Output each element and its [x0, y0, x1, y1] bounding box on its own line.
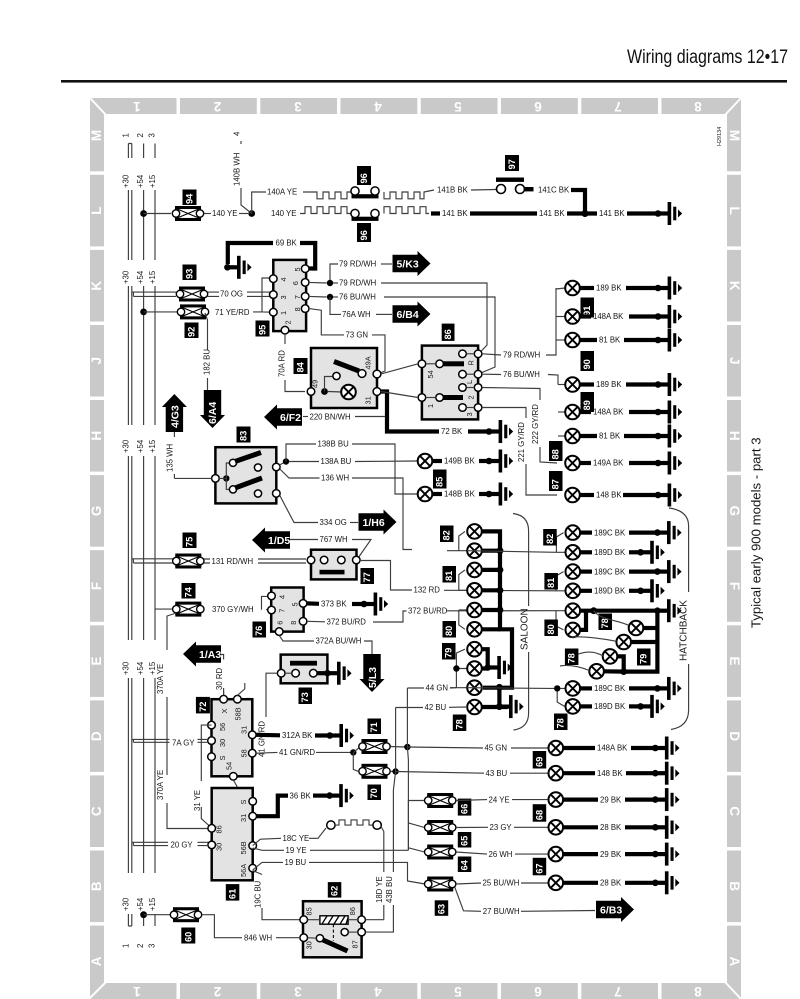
- svg-text:58B: 58B: [234, 707, 243, 720]
- svg-text:73: 73: [300, 692, 310, 702]
- svg-text:S: S: [218, 756, 227, 761]
- wire 373 BK thick to earth: [307, 601, 319, 606]
- svg-text:140 YE: 140 YE: [271, 209, 296, 218]
- lamp S1: [467, 524, 482, 539]
- tag 80 saloon: [443, 621, 457, 638]
- wire 136 WH feed: [447, 531, 467, 550]
- pin 58 right: [249, 749, 257, 757]
- relay 84 body: [311, 348, 377, 408]
- svg-text:69: 69: [534, 757, 544, 767]
- wire 44 GN riser: [406, 688, 408, 747]
- svg-text:7A GY: 7A GY: [172, 738, 195, 747]
- fuse 74: [173, 602, 204, 617]
- svg-text:7: 7: [278, 609, 287, 613]
- tag 78 hatch lower: [554, 714, 568, 731]
- pin 5: [301, 265, 309, 273]
- relay 62 body: [303, 901, 362, 957]
- svg-text:76A WH: 76A WH: [342, 310, 371, 319]
- lamp 148A BK row2: [556, 316, 565, 318]
- svg-text:2: 2: [214, 984, 222, 999]
- svg-text:140 YE: 140 YE: [212, 209, 237, 218]
- svg-text:8: 8: [694, 984, 702, 999]
- svg-text:80: 80: [444, 626, 454, 636]
- svg-text:81 BK: 81 BK: [599, 432, 621, 441]
- lamp 148A BK bottom: [549, 741, 564, 756]
- svg-text:1: 1: [121, 133, 130, 137]
- svg-text:70: 70: [369, 788, 379, 798]
- lamp S7: [467, 642, 482, 657]
- svg-text:C: C: [89, 806, 104, 816]
- svg-text:141 BK: 141 BK: [539, 209, 565, 218]
- svg-text:78: 78: [556, 718, 566, 728]
- node +54 tap fuse 92: [140, 309, 147, 316]
- pin 7: [301, 293, 309, 301]
- wire 43 BU row: [396, 772, 484, 774]
- lamp H3: [566, 564, 581, 579]
- lamp S8: [467, 661, 482, 676]
- wire 132 RD hatch feed: [556, 572, 566, 591]
- svg-text:31: 31: [240, 726, 249, 734]
- rail +15: [154, 144, 156, 927]
- lamp 29 BK row: [549, 792, 564, 807]
- frame right band: [727, 98, 741, 999]
- lamp S6: [467, 622, 482, 637]
- svg-text:767 WH: 767 WH: [320, 535, 348, 544]
- pin 31: [373, 388, 381, 396]
- wire 132 RD feed: [459, 570, 467, 590]
- fuse 71: [359, 739, 390, 754]
- wire 23 GY: [456, 826, 488, 828]
- svg-text:86: 86: [348, 907, 357, 915]
- lamp H5: [566, 603, 581, 618]
- svg-text:7: 7: [614, 99, 622, 114]
- svg-text:136 WH: 136 WH: [321, 474, 349, 483]
- svg-text:81: 81: [444, 571, 454, 581]
- tag 69: [533, 751, 547, 769]
- pin 85: [300, 916, 308, 924]
- svg-text:1/A3: 1/A3: [199, 649, 221, 661]
- wire 76A WH branch to 6/B4: [330, 297, 341, 314]
- lamp 81 BK row6: [558, 435, 565, 437]
- svg-text:6/F2: 6/F2: [280, 412, 301, 424]
- svg-text:43 BU: 43 BU: [486, 769, 508, 778]
- switch 97 open contact: [497, 185, 506, 194]
- svg-text:18C YE: 18C YE: [283, 834, 310, 843]
- tag 68: [533, 804, 547, 822]
- svg-text:67: 67: [534, 863, 544, 873]
- svg-text:373 BK: 373 BK: [321, 600, 347, 609]
- fuse 75 feed: [132, 559, 176, 563]
- svg-text:141C BK: 141C BK: [538, 186, 570, 195]
- lamp H6: [566, 623, 581, 638]
- svg-text:G: G: [727, 506, 742, 517]
- svg-text:372A BU/WH: 372A BU/WH: [316, 637, 362, 646]
- svg-text:D: D: [727, 731, 742, 741]
- svg-text:131 RD/WH: 131 RD/WH: [212, 557, 254, 566]
- pin 3: [270, 291, 278, 299]
- svg-text:49: 49: [311, 380, 320, 388]
- tag 78 hatch mid: [565, 649, 579, 666]
- svg-text:30: 30: [215, 843, 224, 851]
- svg-text:G: G: [89, 506, 104, 517]
- connector 61 body: [212, 788, 253, 880]
- lamp H11: [566, 681, 581, 696]
- bulb check loop (crenellated): [327, 821, 335, 829]
- tag 78 saloon: [453, 715, 467, 732]
- svg-text:27 BU/WH: 27 BU/WH: [483, 907, 520, 916]
- svg-text:68: 68: [534, 810, 544, 820]
- pin 8: [301, 305, 309, 313]
- svg-text:L: L: [89, 206, 104, 214]
- svg-text:79 RD/WH: 79 RD/WH: [503, 351, 540, 360]
- svg-text:140B WH: 140B WH: [233, 153, 242, 186]
- svg-text:F: F: [727, 582, 742, 590]
- fuse 70: [359, 764, 390, 779]
- rheostat 77: [311, 550, 357, 580]
- svg-text:4: 4: [278, 595, 287, 599]
- svg-text:3: 3: [294, 99, 302, 114]
- wire 30 RD to pin X: [223, 688, 225, 695]
- pin 2: [281, 326, 289, 334]
- svg-text:3: 3: [147, 133, 156, 137]
- lamp S9: [467, 680, 482, 695]
- svg-text:58: 58: [240, 749, 249, 757]
- svg-text:31: 31: [239, 814, 248, 822]
- svg-text:6/B4: 6/B4: [397, 309, 419, 321]
- contact arm: [334, 362, 359, 372]
- svg-text:25 BU/WH: 25 BU/WH: [483, 879, 520, 888]
- svg-text:81 BK: 81 BK: [599, 336, 621, 345]
- svg-text:2: 2: [214, 99, 222, 114]
- svg-text:69 BK: 69 BK: [276, 239, 298, 248]
- lamp 149B BK: [418, 454, 433, 469]
- tag 96 upper: [357, 166, 371, 185]
- ground 72 BK: [486, 420, 514, 443]
- tag 82 saloon: [440, 526, 454, 543]
- lamp H10: [589, 664, 604, 679]
- svg-text:71 YE/RD: 71 YE/RD: [215, 308, 250, 317]
- ground 69 BK: [224, 256, 252, 279]
- wire 26 WH: [456, 852, 487, 854]
- lamp 28 BK row: [549, 820, 564, 835]
- lamp H2: [566, 545, 581, 560]
- tag 81 hatch: [544, 573, 558, 590]
- svg-text:HATCHBACK: HATCHBACK: [678, 600, 689, 661]
- svg-text:M: M: [89, 130, 104, 141]
- svg-text:90: 90: [582, 359, 592, 369]
- svg-text:4: 4: [279, 277, 288, 281]
- node 138A junction: [280, 462, 287, 466]
- wire pin54 to pin S of 61: [233, 780, 247, 801]
- svg-text:87: 87: [551, 479, 561, 489]
- svg-text:82: 82: [442, 530, 452, 540]
- wire 44 GN label: [407, 687, 424, 689]
- svg-text:221 GY/RD: 221 GY/RD: [517, 422, 526, 462]
- wire 79 RD/WH row1 to 5/K3: [330, 264, 338, 283]
- svg-text:E: E: [727, 656, 742, 665]
- svg-text:138A BU: 138A BU: [321, 457, 352, 466]
- svg-text:1/D5: 1/D5: [268, 535, 290, 547]
- hatchback earth bus thick: [580, 611, 657, 672]
- tag 82 hatch: [543, 529, 557, 546]
- svg-text:61: 61: [228, 889, 238, 899]
- arrow 6/B4: [393, 302, 431, 327]
- svg-text:148A BK: 148A BK: [597, 744, 628, 753]
- svg-text:94: 94: [185, 193, 195, 204]
- tag 96 lower: [357, 223, 371, 242]
- svg-text:222 GY/RD: 222 GY/RD: [531, 404, 540, 444]
- svg-text:6: 6: [534, 984, 542, 999]
- relay contact: [316, 935, 323, 942]
- svg-text:372 BU/RD: 372 BU/RD: [408, 607, 448, 616]
- frame bottom band: [89, 983, 741, 999]
- arrow 6/F2 (left): [264, 405, 302, 430]
- wire 312A BK thick: [256, 733, 280, 738]
- pin 1: [270, 308, 278, 316]
- fuse 63: [425, 877, 456, 892]
- pin 2: [459, 384, 467, 392]
- bottom numbers: [133, 984, 702, 999]
- svg-text:24 YE: 24 YE: [489, 795, 510, 804]
- svg-text:S: S: [239, 800, 248, 805]
- svg-text:85: 85: [435, 477, 445, 487]
- saloon mid lamps earth: [482, 649, 488, 668]
- svg-text:5/L3: 5/L3: [367, 667, 379, 688]
- svg-text:20 GY: 20 GY: [171, 841, 194, 850]
- svg-text:189D BK: 189D BK: [594, 702, 626, 711]
- wire 70 OG: [208, 292, 220, 296]
- pin 86: [358, 916, 366, 924]
- svg-text:5/K3: 5/K3: [397, 259, 419, 271]
- svg-text:41 GN/RD: 41 GN/RD: [257, 721, 266, 757]
- svg-text:138B BU: 138B BU: [318, 440, 350, 449]
- HATCHBACK brace: [669, 508, 689, 730]
- svg-text:82: 82: [545, 534, 555, 544]
- svg-text:1: 1: [133, 99, 141, 114]
- wire 221 GY/RD from pin 3: [482, 408, 557, 496]
- wire 36 BK thick: [257, 796, 289, 817]
- arrow 1/A3 (left): [183, 642, 221, 667]
- svg-text:+30: +30: [122, 439, 131, 453]
- svg-text:8: 8: [694, 99, 702, 114]
- svg-text:8: 8: [293, 307, 302, 311]
- switch 72 body: [212, 699, 253, 776]
- pin 30 left: [208, 841, 216, 849]
- svg-text:80: 80: [546, 624, 556, 634]
- svg-text:66: 66: [460, 804, 470, 814]
- svg-text:1/H6: 1/H6: [363, 517, 385, 529]
- svg-text:M: M: [727, 130, 742, 141]
- svg-text:54: 54: [225, 762, 234, 770]
- svg-text:149B BK: 149B BK: [444, 457, 476, 466]
- svg-text:7: 7: [293, 295, 302, 299]
- svg-text:Typical early 900 models - par: Typical early 900 models - part 3: [749, 437, 764, 628]
- svg-text:79 RD/WH: 79 RD/WH: [339, 279, 376, 288]
- svg-text:189C BK: 189C BK: [594, 528, 626, 537]
- svg-text:41 GN/RD: 41 GN/RD: [279, 748, 315, 757]
- svg-text:4: 4: [374, 99, 382, 114]
- svg-text:X: X: [220, 709, 229, 714]
- lamp 148 BK row8: [565, 488, 580, 503]
- svg-text:+54: +54: [136, 174, 145, 188]
- svg-text:132 RD: 132 RD: [414, 586, 441, 595]
- lamp H8: [616, 635, 631, 650]
- pin 56A: [249, 864, 257, 872]
- svg-text:+15: +15: [148, 897, 157, 911]
- wire 20 GY: [132, 842, 168, 845]
- lamp H1: [566, 525, 581, 540]
- arrow 6/B3: [596, 897, 634, 922]
- svg-text:148 BK: 148 BK: [597, 769, 623, 778]
- svg-text:88: 88: [551, 449, 561, 459]
- svg-text:62: 62: [330, 886, 340, 896]
- lamp H12: [566, 699, 581, 714]
- svg-text:312A BK: 312A BK: [282, 731, 313, 740]
- svg-text:3: 3: [147, 944, 156, 948]
- svg-text:71: 71: [369, 722, 379, 732]
- fuse 64: [408, 848, 424, 852]
- svg-text:5: 5: [293, 267, 302, 271]
- svg-text:220 BN/WH: 220 BN/WH: [310, 412, 351, 421]
- svg-text:78: 78: [567, 653, 577, 663]
- svg-text:189 BK: 189 BK: [596, 380, 622, 389]
- svg-text:+30: +30: [122, 897, 131, 911]
- svg-text:87: 87: [351, 940, 360, 948]
- wire 25 BU/WH: [456, 883, 481, 884]
- tag 67: [533, 858, 547, 876]
- light switch connector 76: [271, 588, 303, 632]
- switch 96 lower contact: [351, 209, 379, 221]
- lamp H4: [566, 584, 581, 599]
- svg-text:182 BU: 182 BU: [203, 349, 212, 375]
- pin 54: [418, 360, 426, 368]
- wire 19C BU: [253, 871, 300, 920]
- svg-text:64: 64: [460, 859, 470, 870]
- svg-text:29 BK: 29 BK: [600, 850, 622, 859]
- svg-text:6: 6: [534, 99, 542, 114]
- svg-text:84: 84: [296, 361, 306, 372]
- svg-text:86: 86: [443, 329, 453, 339]
- pin 1: [418, 394, 426, 402]
- svg-text:+54: +54: [136, 897, 145, 911]
- svg-text:96: 96: [359, 230, 369, 240]
- svg-text:F: F: [89, 582, 104, 590]
- svg-text:76: 76: [254, 626, 264, 636]
- wire 136 WH hatch feed: [467, 533, 566, 553]
- svg-text:77: 77: [362, 572, 372, 582]
- svg-text:148A BK: 148A BK: [593, 408, 624, 417]
- corner mitre gaps: [90, 98, 106, 115]
- svg-text:2: 2: [284, 320, 293, 324]
- lower contact arm: [229, 486, 236, 493]
- svg-text:SALOON: SALOON: [519, 608, 530, 650]
- svg-text:30 RD: 30 RD: [215, 668, 224, 690]
- svg-text:45 GN: 45 GN: [485, 744, 508, 753]
- pin L: [459, 370, 467, 378]
- svg-text:8: 8: [289, 621, 298, 625]
- svg-text:189C BK: 189C BK: [594, 567, 626, 576]
- svg-text:K: K: [89, 281, 104, 291]
- svg-text:2: 2: [136, 944, 145, 948]
- wire 70A RD from pin 2: [285, 334, 305, 392]
- wire +54 tap to fuse 94: [140, 210, 147, 217]
- svg-text:49A: 49A: [364, 356, 373, 369]
- svg-text:+54: +54: [136, 439, 145, 453]
- wire 42 BU label: [396, 707, 423, 709]
- svg-text:E: E: [89, 656, 104, 665]
- svg-text:6/B3: 6/B3: [600, 905, 622, 917]
- svg-text:19 YE: 19 YE: [286, 846, 307, 855]
- svg-text:70A RD: 70A RD: [277, 350, 286, 377]
- svg-text:79: 79: [444, 648, 454, 658]
- svg-text:28 BK: 28 BK: [600, 823, 622, 832]
- svg-text:189C BK: 189C BK: [594, 684, 626, 693]
- lamp S5: [467, 603, 482, 618]
- pin 86 left: [208, 825, 216, 833]
- svg-text:3: 3: [294, 984, 302, 999]
- svg-text:19C BU: 19C BU: [254, 880, 263, 908]
- svg-text:846 WH: 846 WH: [244, 933, 272, 942]
- lamp 81 BK row3: [556, 339, 565, 341]
- svg-text:L: L: [465, 380, 474, 384]
- svg-text:56A: 56A: [239, 864, 248, 877]
- tag 89: [581, 392, 595, 412]
- wire 372 BU/RD hatch feed: [556, 611, 566, 630]
- svg-text:B: B: [89, 881, 104, 891]
- wire 76 BU/WH from pin L: [482, 373, 501, 375]
- wire 41 GN/RD drop: [266, 673, 277, 717]
- svg-text:Wiring diagrams 12•17: Wiring diagrams 12•17: [627, 46, 788, 68]
- wire 73 GN from pin 8: [309, 309, 344, 335]
- tag 97: [505, 155, 519, 171]
- wire 24 YE: [456, 799, 487, 802]
- arrow 6/A4 (down): [200, 390, 225, 428]
- pin right bottom: [273, 490, 281, 498]
- wire 42 BU riser: [395, 708, 397, 772]
- switch 96 upper contact: [351, 187, 379, 199]
- svg-text:2: 2: [467, 395, 476, 399]
- wire 43B BU to pin 87: [365, 772, 395, 933]
- wire 27 BU/WH: [455, 887, 481, 911]
- svg-text:372 BU/RD: 372 BU/RD: [327, 618, 367, 627]
- fuse 92: [177, 304, 208, 319]
- svg-text:23 GY: 23 GY: [490, 823, 513, 832]
- lamp S10: [467, 700, 482, 715]
- svg-text:18D YE: 18D YE: [375, 876, 384, 903]
- svg-text:65: 65: [460, 836, 470, 846]
- SALOON brace: [513, 514, 529, 731]
- switch 83 body: [215, 447, 276, 503]
- svg-text:79 RD/WH: 79 RD/WH: [339, 260, 376, 269]
- lamp 148A BK row5: [558, 411, 565, 413]
- wire 72 BK thick: [381, 392, 439, 432]
- wire 1 from relay: [381, 392, 418, 398]
- svg-text:6/A4: 6/A4: [207, 402, 219, 424]
- svg-text:A: A: [727, 957, 742, 967]
- tag 81 saloon: [443, 566, 457, 583]
- svg-text:4: 4: [374, 984, 382, 999]
- wire 182 BU drop to arrow 6/A4: [205, 313, 208, 390]
- wire 141 BK thick run: [431, 211, 440, 215]
- svg-text:148A BK: 148A BK: [593, 312, 624, 321]
- bulb in relay: [328, 391, 342, 394]
- svg-text:135 WH: 135 WH: [166, 444, 175, 472]
- svg-text:95: 95: [258, 325, 268, 335]
- lamp 28 BK row2: [549, 876, 564, 891]
- wire 30 RD: [221, 655, 224, 696]
- feed curves to fog/reverse lamps: [594, 611, 629, 626]
- switch 86 body: [422, 346, 478, 420]
